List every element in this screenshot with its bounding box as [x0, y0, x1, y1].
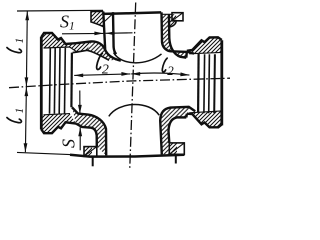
bottom mouth face line — [70, 155, 184, 157]
label l2 left — [97, 53, 109, 77]
top-right elbow outer — [169, 14, 186, 58]
bottom-right bead chamfer — [169, 143, 184, 154]
extension line bottom — [17, 152, 70, 154]
top-right shoulder step — [185, 51, 188, 58]
vertical centerline — [130, 3, 136, 171]
bottom-right elbow outer — [169, 117, 187, 143]
hatch: right socket bottom band — [187, 111, 222, 128]
right socket top profile — [187, 37, 222, 51]
label l1 lower — [7, 108, 26, 123]
hatch: right socket top band — [187, 37, 222, 53]
top-right bore line and elbow inner — [162, 12, 195, 53]
hatch: left socket bottom band — [41, 114, 76, 134]
bottom-left bead box — [84, 147, 97, 157]
dimension S — [79, 91, 81, 114]
left socket thread ribs — [49, 48, 52, 114]
right socket thread crest bottom — [189, 111, 221, 113]
top branch mouth face — [104, 12, 162, 14]
top-left elbow outer surface — [76, 41, 121, 60]
left socket thread end plane — [70, 53, 73, 108]
hatch: top-left elbow band — [87, 42, 121, 61]
svg-text:2: 2 — [102, 63, 109, 78]
top branch left wall inner — [113, 12, 116, 54]
l1 arrowheads — [25, 11, 29, 20]
bottom-left bead chamfer — [84, 147, 97, 157]
hatch: bottom-left elbow band — [72, 107, 91, 127]
left socket thread cone top — [70, 47, 77, 52]
extension line top — [17, 9, 103, 12]
bottom-left elbow inner — [72, 107, 106, 155]
label l1 upper — [7, 38, 26, 53]
svg-text:2: 2 — [167, 63, 174, 78]
left socket thread crest bottom — [44, 114, 71, 115]
svg-text:S: S — [59, 139, 79, 148]
top-right bead curl — [169, 21, 176, 27]
top-left elbow inner surface run bore top — [73, 50, 109, 60]
bottom-left elbow outer — [76, 124, 97, 147]
dimension line l1 upper — [25, 11, 28, 86]
dimension l2 left — [74, 74, 130, 75]
svg-text:1: 1 — [14, 108, 26, 114]
hatch: bottom-right elbow band — [170, 107, 189, 118]
hatch: left socket top wall band — [41, 33, 91, 52]
dimension S1 — [62, 32, 103, 34]
hatch: top-right bead curl — [169, 14, 176, 27]
top-right bead box — [172, 13, 183, 21]
label l2 right — [162, 58, 174, 78]
top-left bead outline — [91, 11, 103, 26]
right socket bottom profile — [187, 114, 222, 128]
left socket mouth face — [40, 37, 43, 130]
horizontal centerline — [9, 78, 230, 88]
right socket mouth face — [220, 40, 223, 125]
right socket thread end plane — [197, 54, 200, 113]
bottom-left tick below mouth — [92, 157, 94, 166]
bottom-right tick below mouth — [175, 155, 177, 163]
bottom-right bead box — [169, 143, 184, 154]
hatch: bottom-left bead box — [84, 147, 92, 157]
left socket bottom profile — [41, 122, 76, 133]
top-right bead chamfer — [172, 13, 183, 21]
hatch: top-right wall and elbow band — [162, 12, 188, 57]
label S — [59, 139, 79, 148]
left socket top profile — [41, 33, 76, 44]
hatch: bottom-right bead box — [169, 143, 177, 154]
bottom-right elbow inner run bore bottom — [160, 107, 195, 154]
right socket thread crest top — [189, 52, 221, 53]
right socket thread ribs — [203, 54, 206, 113]
bottom-right shoulder step — [185, 114, 188, 118]
bore intersection arc top — [114, 53, 162, 63]
top branch left wall outer — [103, 12, 105, 51]
svg-text:S1: S1 — [60, 12, 75, 33]
left socket thread crest top — [44, 47, 71, 48]
svg-text:1: 1 — [14, 38, 26, 44]
bore intersection arc bottom — [109, 104, 159, 116]
hatch: top-left bead — [91, 11, 103, 26]
dimension line l1 lower — [25, 87, 26, 152]
dimension l2 right — [131, 73, 189, 75]
hatch stroke in top branch left wall — [105, 14, 113, 22]
top-right bead top ledge — [163, 13, 173, 15]
